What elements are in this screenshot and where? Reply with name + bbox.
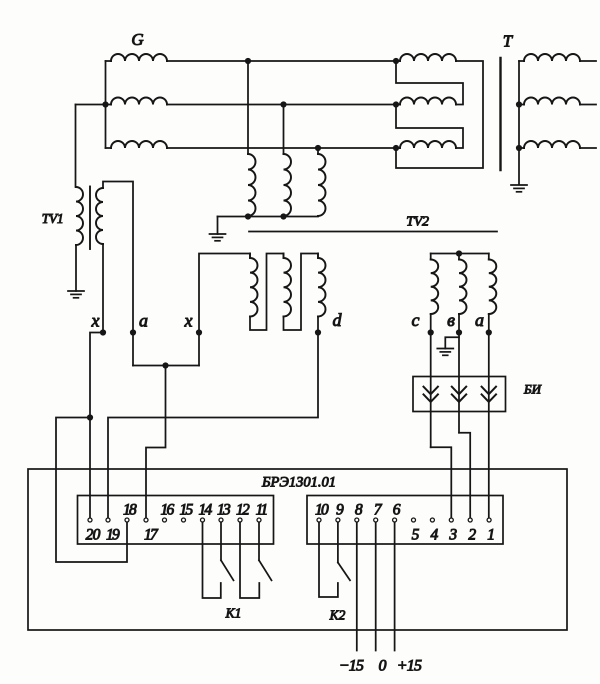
svg-text:G: G: [131, 30, 143, 49]
transformer T secondary winding 3: [524, 141, 580, 148]
transformer TV2 primary winding 3: [318, 154, 326, 216]
node a2: [486, 329, 492, 335]
BI arrow 3: [482, 387, 496, 395]
wire terminal 12 to K1 fixed: [240, 523, 259, 598]
terminal 8 circle (right strip): [355, 518, 359, 522]
wire terminal 14 to K1 fixed: [203, 523, 221, 598]
wire BI out 1 to terminal 3: [431, 447, 452, 517]
wire x branch to terminal 18: [56, 418, 127, 563]
generator G winding A: [111, 54, 167, 61]
terminal 15 circle: [182, 518, 186, 522]
wire TV1 secondary bottom to node x: [102, 244, 104, 333]
block BI box: [413, 377, 506, 412]
ground TV1: [68, 290, 84, 292]
svg-text:18: 18: [123, 502, 137, 519]
node T secondary B: [516, 101, 522, 107]
BI arrow 1: [424, 387, 438, 395]
wire phase A bus: [167, 60, 396, 62]
node delta A: [393, 58, 399, 64]
node TV2 star point 2: [280, 213, 286, 219]
ground T secondary: [511, 184, 527, 186]
svg-text:5: 5: [412, 527, 420, 544]
svg-text:19: 19: [106, 527, 120, 544]
wire delta link A-B: [396, 61, 463, 105]
svg-text:13: 13: [217, 502, 231, 519]
wire TV2 star secondary bus: [431, 253, 489, 255]
svg-text:15: 15: [180, 502, 194, 519]
svg-text:c: c: [412, 310, 420, 330]
wire v into BI: [458, 333, 460, 433]
wire terminal 9 to K2 blade: [337, 523, 339, 563]
svg-text:12: 12: [236, 502, 250, 519]
transformer TV2 primary winding 2: [284, 154, 292, 216]
wire BI out 2 to terminal 2: [459, 433, 470, 518]
core T: [499, 58, 501, 170]
terminal 16 circle: [163, 518, 167, 522]
node c: [428, 329, 434, 335]
BI arrow 2: [452, 387, 466, 395]
transformer T secondary winding 2: [524, 98, 580, 105]
wire terminal 6 supply +15: [394, 523, 396, 651]
wire terminal 11 to K1 blade: [258, 523, 260, 561]
wire d to terminal 19: [108, 333, 318, 518]
wire TV1 primary to ground: [75, 245, 77, 291]
svg-text:14: 14: [199, 502, 213, 519]
svg-text:БРЭ1301.01: БРЭ1301.01: [261, 475, 336, 491]
node phase C to TV2: [315, 145, 321, 151]
svg-text:а: а: [475, 310, 484, 330]
svg-text:x: x: [184, 311, 193, 331]
wire junction to terminal 17: [146, 366, 166, 518]
transformer TV2 secondary winding 1: [249, 254, 251, 259]
node delta B: [393, 101, 399, 107]
node x: [100, 329, 106, 335]
svg-text:в: в: [447, 310, 455, 330]
generator G winding C: [111, 141, 167, 148]
wire delta link B-C: [396, 105, 463, 149]
core TV1: [89, 187, 91, 250]
transformer TV2 secondary winding 3: [317, 254, 319, 259]
svg-text:БИ: БИ: [523, 382, 542, 397]
wire tap to TV1: [76, 104, 106, 106]
transformer TV2 primary winding 1: [248, 154, 256, 216]
svg-text:x: x: [91, 311, 100, 331]
svg-text:a: a: [139, 311, 148, 331]
svg-text:К2: К2: [329, 608, 346, 623]
terminal 4 circle (right strip): [430, 518, 434, 522]
node a: [130, 329, 136, 335]
wire x2 down: [198, 333, 200, 366]
transformer T primary winding 1: [396, 60, 400, 62]
wire delta link C-A: [396, 61, 483, 168]
terminal 11 circle: [257, 518, 261, 522]
generator G winding B: [111, 98, 167, 105]
terminal 20 circle: [88, 518, 92, 522]
wire TV1 secondary top to node a: [103, 182, 133, 333]
wire a down: [132, 333, 134, 366]
contact K1 blade 2: [259, 560, 272, 580]
terminal 10 circle (right strip): [317, 518, 321, 522]
svg-text:6: 6: [393, 502, 401, 519]
wire a2 into BI: [488, 333, 490, 518]
node phase A to TV2: [245, 58, 251, 64]
wire node x2 riser: [199, 254, 250, 333]
terminal 3 circle (right strip): [449, 518, 453, 522]
node a-x2 junction: [162, 362, 168, 368]
node G neutral tap: [102, 101, 108, 107]
svg-text:3: 3: [448, 527, 457, 544]
terminal 2 circle (right strip): [468, 518, 472, 522]
core TV2: [249, 231, 497, 233]
ground v: [437, 348, 453, 350]
svg-text:T: T: [503, 32, 514, 51]
svg-text:0: 0: [379, 658, 387, 675]
terminal strip left: [78, 496, 274, 545]
wire x to terminal 20: [90, 333, 103, 518]
svg-text:2: 2: [468, 527, 476, 544]
svg-text:4: 4: [431, 527, 439, 544]
transformer TV1 secondary: [96, 188, 103, 244]
terminal 12 circle: [238, 518, 242, 522]
wire G common vertical: [105, 61, 107, 148]
transformer TV2 secondary winding 2: [283, 254, 285, 259]
node v: [456, 329, 462, 335]
svg-text:1: 1: [487, 527, 495, 544]
transformer T primary winding 2: [396, 104, 400, 106]
terminal 14 circle: [201, 518, 205, 522]
svg-text:10: 10: [315, 502, 329, 519]
svg-text:TV2: TV2: [406, 215, 429, 230]
contact K2 blade: [338, 563, 350, 581]
node phase B to TV2: [280, 101, 286, 107]
wire T secondary bus: [518, 61, 520, 185]
terminal 7 circle (right strip): [374, 518, 378, 522]
wire TV2 secondary to node d: [317, 317, 319, 333]
wire terminal 13 to K1 blade: [220, 523, 222, 561]
wire a-x2 join: [133, 365, 199, 367]
terminal 19 circle: [106, 518, 110, 522]
svg-text:+15: +15: [397, 658, 422, 675]
wire terminal 8 supply -15: [356, 523, 358, 651]
wire TV2 neutral: [217, 217, 219, 235]
terminal 13 circle: [219, 518, 223, 522]
wire TV2 column 1 drop: [247, 61, 249, 154]
svg-text:7: 7: [374, 502, 383, 519]
ground branch at v: [445, 337, 459, 348]
wire TV2 secondary link 1: [250, 254, 284, 331]
wire phase C bus: [167, 147, 396, 149]
wire phase B bus: [167, 104, 396, 106]
contact K1 blade 1: [221, 560, 234, 580]
node T secondary C: [516, 145, 522, 151]
terminal strip right: [307, 496, 503, 545]
node TV2 star secondary mid: [456, 250, 462, 256]
wire TV2 column 2 drop: [283, 105, 285, 155]
node TV2 star point 1: [245, 213, 251, 219]
wire TV2 column 3 drop: [317, 148, 319, 154]
svg-text:20: 20: [86, 527, 101, 544]
terminal 1 circle (right strip): [487, 518, 491, 522]
node delta C: [393, 145, 399, 151]
svg-text:11: 11: [256, 502, 268, 519]
node d: [315, 329, 321, 335]
wire terminal 10 to K2 fixed: [319, 523, 338, 597]
terminal 17 circle: [144, 518, 148, 522]
block BRE1301.01 box: [28, 469, 567, 630]
wire terminal 7 supply 0: [375, 523, 377, 651]
svg-text:К1: К1: [225, 606, 242, 621]
svg-text:17: 17: [144, 527, 159, 544]
terminal 5 circle (right strip): [412, 518, 416, 522]
svg-text:16: 16: [161, 502, 175, 519]
wire TV2 primary star bus: [218, 216, 319, 218]
svg-text:d: d: [333, 310, 343, 330]
node x2: [196, 329, 202, 335]
ground TV2 neutral: [210, 233, 226, 235]
transformer T secondary winding 1: [524, 54, 580, 61]
transformer T primary winding 3: [396, 147, 400, 149]
wire TV2 secondary link 2: [284, 254, 319, 331]
svg-text:8: 8: [355, 502, 363, 519]
terminal 9 circle (right strip): [336, 518, 340, 522]
transformer TV1 primary: [76, 187, 83, 245]
wire c into BI: [430, 333, 432, 448]
svg-text:TV1: TV1: [42, 211, 64, 226]
transformer TV2 star secondary winding 3: [489, 260, 497, 315]
transformer TV2 star secondary winding 1: [431, 260, 439, 315]
svg-text:9: 9: [336, 502, 344, 519]
transformer TV2 star secondary winding 2: [459, 260, 467, 315]
node x branch: [87, 414, 93, 420]
svg-text:−15: −15: [339, 658, 364, 675]
terminal 18 circle: [125, 518, 129, 522]
terminal 6 circle (right strip): [393, 518, 397, 522]
